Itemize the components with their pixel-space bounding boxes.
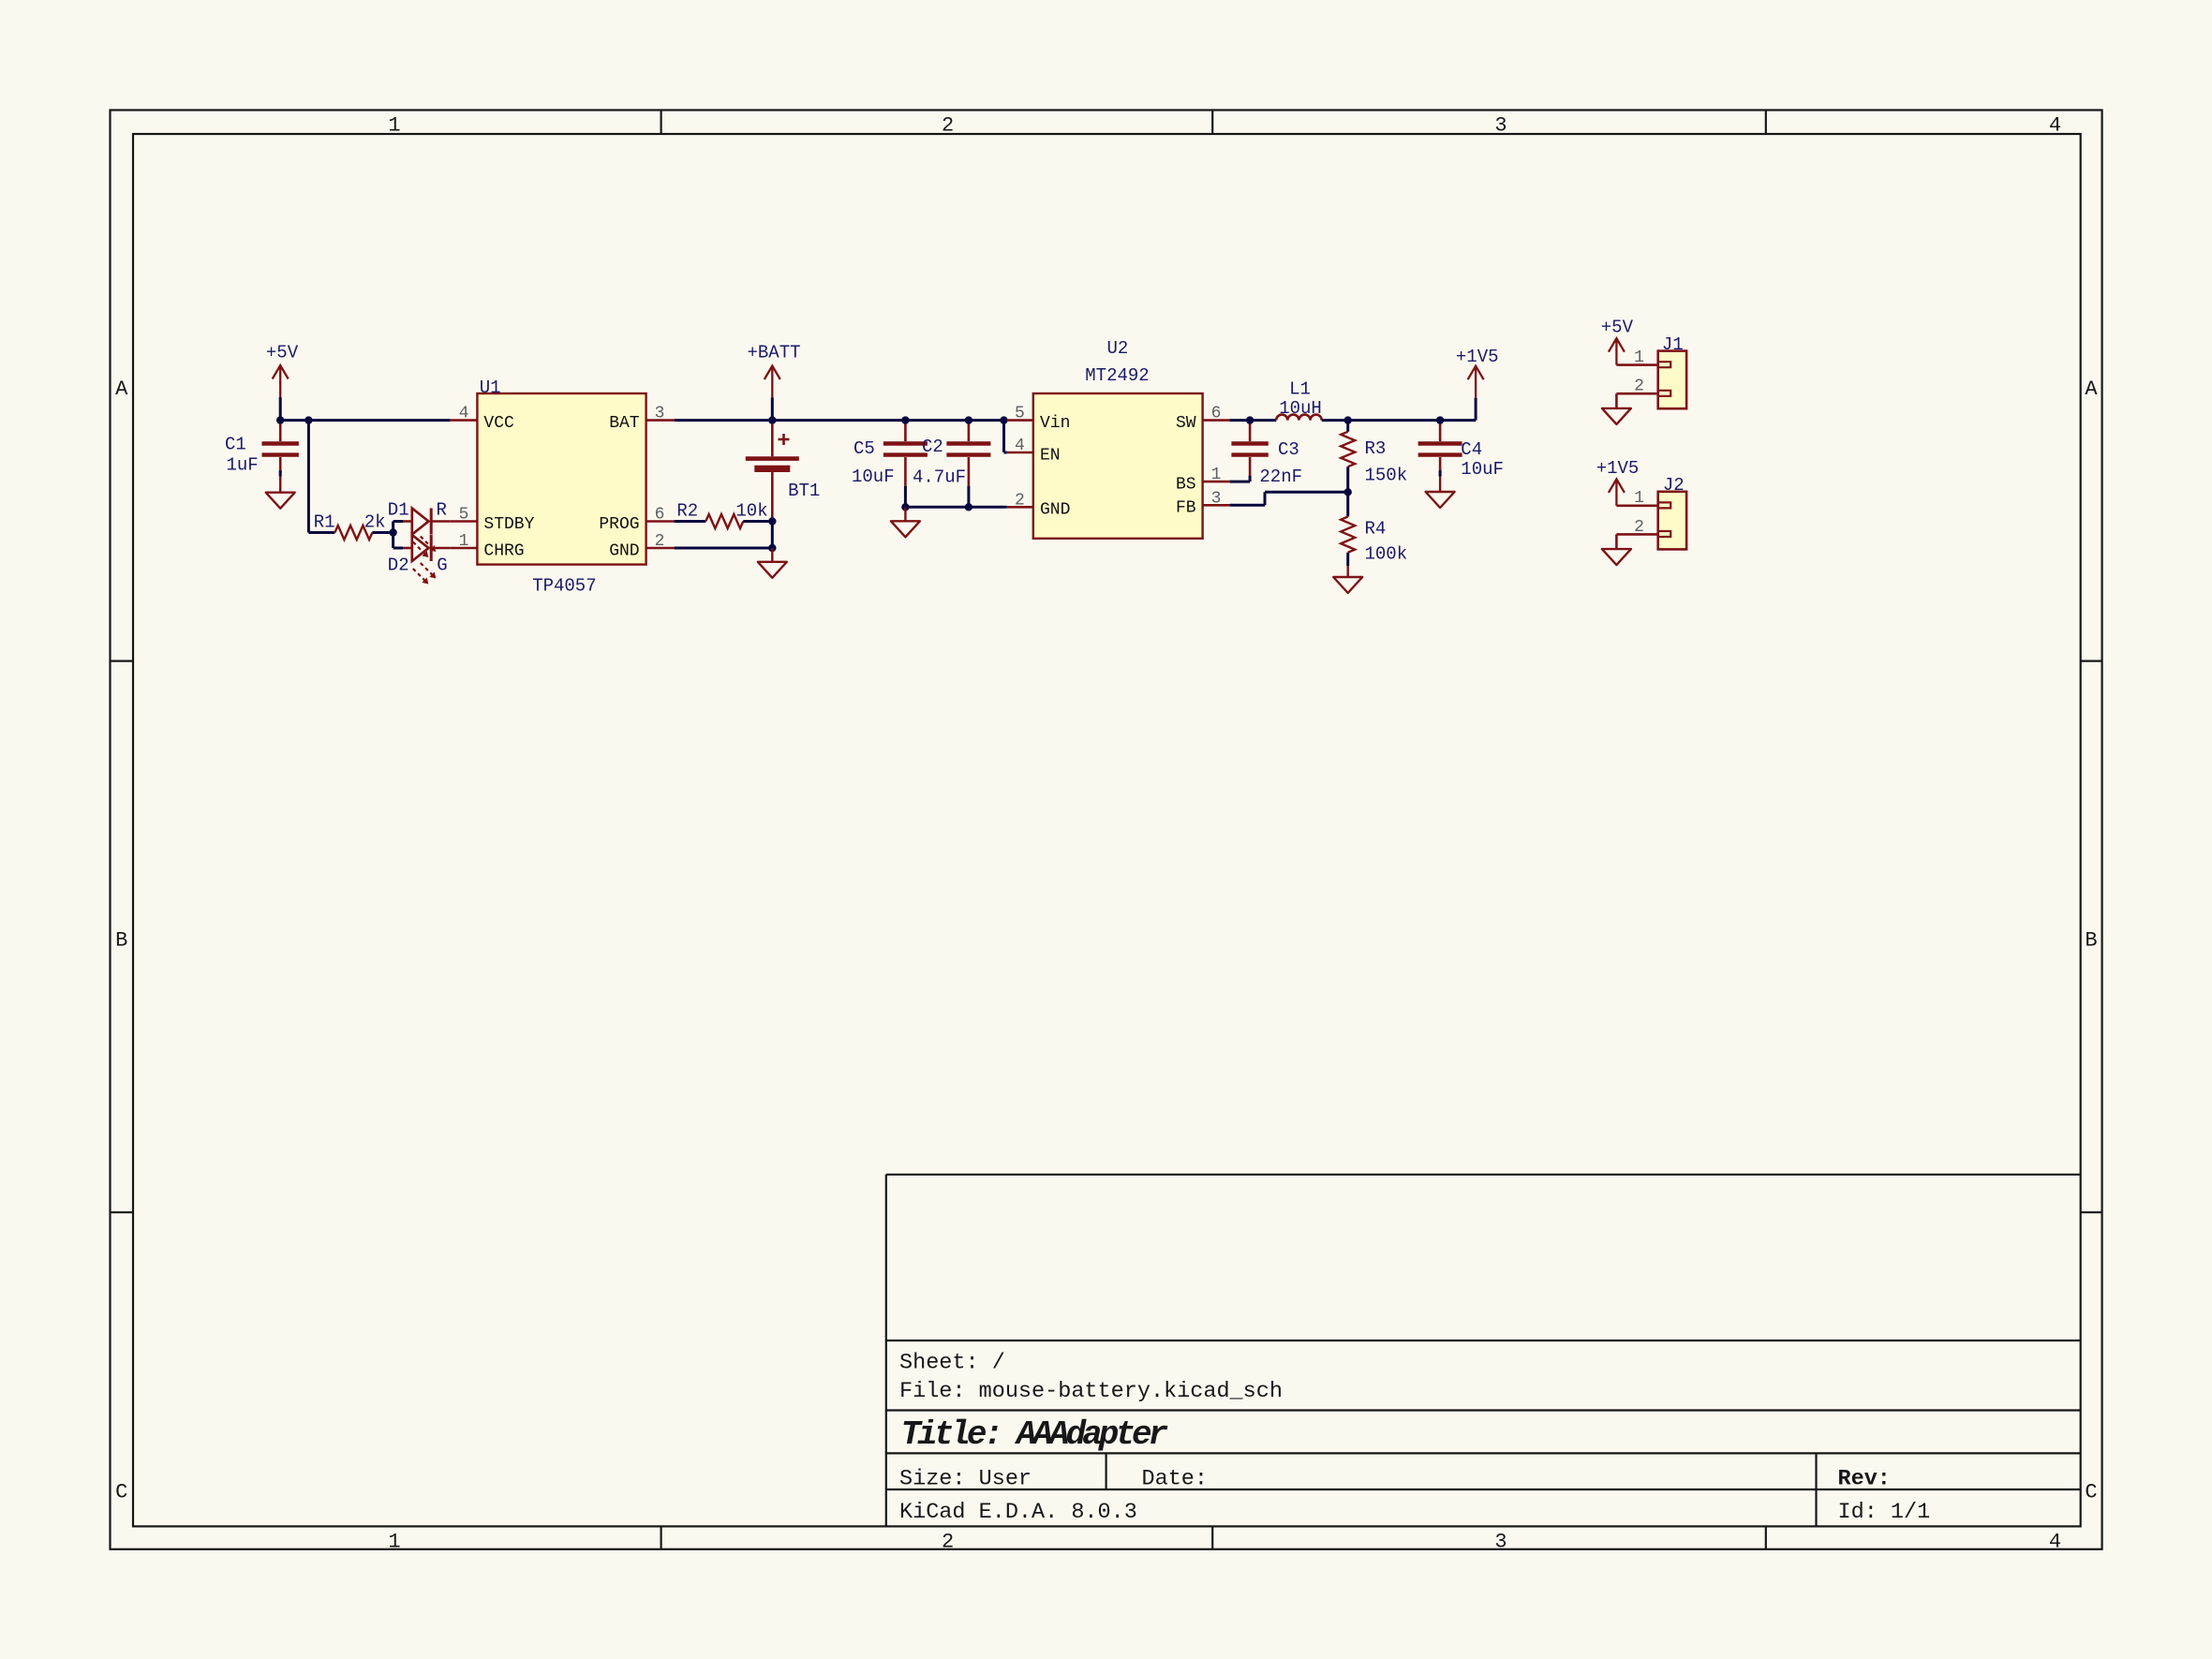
U1 reference label bbox=[480, 378, 501, 398]
svg-text:22nF: 22nF bbox=[1259, 467, 1302, 487]
svg-text:U2: U2 bbox=[1106, 338, 1128, 359]
battery BT1 bbox=[746, 421, 799, 522]
junction R1 branch node bbox=[304, 416, 312, 423]
LED D2 green bbox=[403, 535, 450, 585]
wire battery minus column bbox=[771, 522, 774, 549]
svg-text:5: 5 bbox=[1015, 405, 1025, 423]
title block sheet id text bbox=[1838, 1500, 1931, 1525]
junction feedback node bbox=[1344, 488, 1352, 496]
wire U1 BAT to U2 Vin bbox=[675, 419, 1007, 422]
wire +BATT stem bbox=[771, 398, 774, 421]
svg-text:C2: C2 bbox=[922, 437, 943, 457]
svg-text:B: B bbox=[115, 929, 127, 953]
svg-text:C1: C1 bbox=[225, 434, 246, 454]
svg-text:Title: AAAdapter: Title: AAAdapter bbox=[901, 1415, 1168, 1454]
capacitor C2 bbox=[946, 421, 990, 508]
svg-text:3: 3 bbox=[1211, 489, 1222, 508]
connector J1 body bbox=[1658, 351, 1686, 409]
svg-text:1: 1 bbox=[388, 1531, 400, 1554]
svg-text:A: A bbox=[115, 378, 128, 401]
resistor R2 bbox=[675, 514, 773, 528]
U2 pin 2 GND bbox=[1007, 491, 1071, 519]
R2 value 10k bbox=[735, 500, 767, 521]
svg-text:+1V5: +1V5 bbox=[1596, 458, 1640, 479]
ground below C1 bbox=[266, 477, 295, 509]
svg-text:CHRG: CHRG bbox=[483, 541, 524, 560]
wire SW to L1 bbox=[1230, 419, 1277, 422]
R3 reference label bbox=[1365, 438, 1387, 459]
U1 pin 5 STDBY bbox=[450, 506, 534, 534]
title text AAAdapter bbox=[901, 1415, 1168, 1454]
svg-text:R1: R1 bbox=[314, 512, 335, 533]
R4 reference label bbox=[1365, 519, 1387, 540]
svg-text:+BATT: +BATT bbox=[747, 343, 800, 363]
svg-text:2: 2 bbox=[1015, 491, 1025, 510]
svg-text:File: mouse-battery.kicad_sch: File: mouse-battery.kicad_sch bbox=[899, 1379, 1283, 1404]
svg-text:J2: J2 bbox=[1663, 475, 1685, 496]
svg-text:Size: User: Size: User bbox=[899, 1467, 1032, 1492]
svg-text:B: B bbox=[2085, 929, 2097, 953]
wire +1V5 stem bbox=[1475, 398, 1477, 421]
svg-text:Date:: Date: bbox=[1142, 1467, 1209, 1492]
title block outline bbox=[886, 1175, 2081, 1527]
wire LED anode riser bbox=[393, 522, 403, 549]
svg-text:10uH: 10uH bbox=[1279, 398, 1322, 419]
C5 value 10uF bbox=[852, 467, 895, 487]
resistor R4 bbox=[1341, 492, 1355, 566]
svg-text:BS: BS bbox=[1176, 476, 1196, 495]
svg-text:J1: J1 bbox=[1662, 334, 1684, 355]
svg-text:1: 1 bbox=[1211, 466, 1222, 484]
ground below C5 bbox=[891, 507, 920, 537]
L1 value 10uH bbox=[1279, 398, 1322, 419]
inductor L1 bbox=[1276, 415, 1321, 421]
wire U1 GND to BT1 minus node bbox=[675, 547, 773, 550]
U2 pin 1 BS bbox=[1176, 466, 1230, 494]
D1 reference label bbox=[388, 499, 409, 520]
wire +5V to J1 pin 1 bbox=[1616, 363, 1657, 366]
svg-text:Sheet: /: Sheet: / bbox=[899, 1351, 1005, 1376]
U1 pin 1 CHRG bbox=[450, 532, 524, 560]
wire ground bus to U2 GND bbox=[905, 506, 1006, 509]
wire J2 pin 2 to ground bbox=[1616, 534, 1657, 549]
junction GND wire to battery node bbox=[768, 544, 776, 552]
R3 value 150k bbox=[1365, 466, 1408, 486]
C1 reference label bbox=[225, 434, 246, 454]
svg-text:G: G bbox=[437, 555, 447, 576]
op-amp U2 MT2492 body bbox=[1033, 393, 1203, 539]
junction C3 top bbox=[1246, 416, 1254, 423]
U2 pin 3 FB bbox=[1176, 489, 1230, 517]
title block file name text bbox=[899, 1379, 1283, 1404]
D1 value R bbox=[437, 499, 447, 520]
svg-text:STDBY: STDBY bbox=[483, 515, 534, 534]
U1 value TP4057 bbox=[532, 576, 596, 597]
C2 value 4.7uF bbox=[913, 467, 966, 487]
svg-text:EN: EN bbox=[1040, 446, 1061, 465]
LED D1 red bbox=[403, 509, 450, 558]
J1 pin number 1 bbox=[1634, 348, 1644, 367]
svg-text:KiCad E.D.A. 8.0.3: KiCad E.D.A. 8.0.3 bbox=[899, 1500, 1137, 1525]
svg-text:D1: D1 bbox=[388, 499, 409, 520]
svg-text:10k: 10k bbox=[735, 500, 767, 521]
svg-text:R: R bbox=[437, 499, 447, 520]
title block sheet path text bbox=[899, 1351, 1005, 1376]
svg-text:SW: SW bbox=[1176, 414, 1196, 433]
svg-text:100k: 100k bbox=[1365, 544, 1408, 565]
title block date field bbox=[1142, 1467, 1209, 1492]
svg-text:4.7uF: 4.7uF bbox=[913, 467, 966, 487]
svg-text:VCC: VCC bbox=[483, 414, 514, 433]
svg-text:4: 4 bbox=[2049, 1531, 2061, 1554]
row tick marks left/right bbox=[111, 661, 2102, 1213]
svg-text:BAT: BAT bbox=[609, 414, 640, 433]
wire Vin to EN bbox=[1004, 421, 1007, 452]
D2 value G bbox=[437, 555, 447, 576]
svg-text:R2: R2 bbox=[676, 500, 698, 521]
capacitor C4 bbox=[1418, 421, 1462, 477]
capacitor C1 bbox=[262, 421, 299, 477]
svg-text:A: A bbox=[2085, 378, 2098, 401]
svg-text:U1: U1 bbox=[480, 378, 501, 398]
svg-text:150k: 150k bbox=[1365, 466, 1408, 486]
svg-text:R4: R4 bbox=[1365, 519, 1387, 540]
sheet inner border frame bbox=[133, 134, 2081, 1526]
svg-text:3: 3 bbox=[1494, 1531, 1507, 1554]
svg-text:C5: C5 bbox=[854, 438, 875, 459]
L1 reference label bbox=[1289, 379, 1311, 400]
svg-text:+5V: +5V bbox=[1601, 318, 1634, 338]
junction at LED anodes bbox=[389, 528, 396, 536]
U1 pin 2 GND bbox=[609, 532, 674, 560]
D2 reference label bbox=[388, 555, 409, 576]
wire J1 pin 2 to ground bbox=[1616, 393, 1657, 408]
svg-text:GND: GND bbox=[1040, 501, 1070, 520]
resistor R3 bbox=[1341, 421, 1355, 493]
power symbol +5V at J1 bbox=[1601, 318, 1634, 365]
junction at C1 top node bbox=[276, 416, 284, 423]
frame column labels 1 2 3 4 bbox=[388, 113, 2061, 1553]
power symbol +BATT bbox=[747, 343, 800, 398]
svg-text:2k: 2k bbox=[364, 512, 386, 533]
svg-text:1: 1 bbox=[1634, 489, 1644, 508]
wire FB to divider bbox=[1230, 492, 1348, 505]
ground below R4 bbox=[1333, 566, 1362, 593]
svg-text:1: 1 bbox=[459, 532, 469, 551]
R1 reference label bbox=[314, 512, 335, 533]
junction R3 top bbox=[1344, 416, 1352, 423]
svg-text:4: 4 bbox=[2049, 113, 2061, 137]
svg-text:+5V: +5V bbox=[266, 343, 299, 363]
svg-text:6: 6 bbox=[1211, 405, 1222, 423]
junction C5 top bbox=[901, 416, 909, 423]
svg-text:3: 3 bbox=[655, 405, 665, 423]
svg-text:FB: FB bbox=[1176, 499, 1196, 518]
svg-text:Rev:: Rev: bbox=[1838, 1467, 1891, 1492]
C4 reference label bbox=[1461, 439, 1482, 460]
connector J2 body bbox=[1658, 492, 1686, 550]
sheet outer border frame bbox=[111, 111, 2102, 1549]
junction Vin EN node bbox=[1000, 416, 1007, 423]
svg-text:R3: R3 bbox=[1365, 438, 1387, 459]
C3 reference label bbox=[1278, 439, 1299, 460]
svg-text:C: C bbox=[2085, 1481, 2097, 1504]
wire +5V stem to node bbox=[279, 397, 282, 421]
svg-text:5: 5 bbox=[459, 506, 469, 525]
svg-text:TP4057: TP4057 bbox=[532, 576, 596, 597]
power symbol +1V5 at J2 bbox=[1596, 458, 1640, 506]
J2 pin number 2 bbox=[1634, 518, 1644, 537]
capacitor C3 bbox=[1230, 421, 1269, 481]
power symbol +1V5 output bbox=[1456, 347, 1499, 398]
svg-text:Vin: Vin bbox=[1040, 414, 1070, 433]
junction C4 top bbox=[1436, 416, 1444, 423]
ground at J1 bbox=[1602, 408, 1631, 424]
C5 reference label bbox=[854, 438, 875, 459]
wire +1V5 to J2 pin 1 bbox=[1616, 504, 1657, 507]
svg-text:C4: C4 bbox=[1461, 439, 1482, 460]
svg-text:10uF: 10uF bbox=[852, 467, 895, 487]
svg-text:2: 2 bbox=[942, 1531, 954, 1554]
svg-text:BT1: BT1 bbox=[788, 481, 820, 501]
U2 value MT2492 bbox=[1085, 365, 1149, 386]
R4 value 100k bbox=[1365, 544, 1408, 565]
svg-text:4: 4 bbox=[1015, 437, 1025, 455]
U2 pin 6 SW bbox=[1176, 405, 1230, 433]
svg-text:C3: C3 bbox=[1278, 439, 1299, 460]
C1 value 1uF bbox=[227, 454, 259, 475]
svg-text:PROG: PROG bbox=[599, 515, 639, 534]
junction +BATT node bbox=[768, 416, 776, 423]
U1 pin 3 BAT bbox=[609, 405, 674, 433]
title block size field bbox=[899, 1467, 1032, 1492]
U2 pin 5 Vin bbox=[1007, 405, 1071, 433]
wire +5V node to U1 VCC bbox=[280, 419, 450, 422]
U1 pin 6 PROG bbox=[599, 506, 674, 534]
svg-text:Id: 1/1: Id: 1/1 bbox=[1838, 1500, 1931, 1525]
BT1 reference label bbox=[788, 481, 820, 501]
svg-text:6: 6 bbox=[655, 506, 665, 525]
op-amp U1 TP4057 body bbox=[477, 393, 646, 565]
R1 value 2k bbox=[364, 512, 386, 533]
junction C2 top bbox=[965, 416, 972, 423]
svg-text:2: 2 bbox=[655, 532, 665, 551]
U1 pin 4 VCC bbox=[450, 405, 514, 433]
svg-text:1: 1 bbox=[1634, 348, 1644, 367]
C3 value 22nF bbox=[1259, 467, 1302, 487]
R2 reference label bbox=[676, 500, 698, 521]
svg-text:3: 3 bbox=[1494, 113, 1507, 137]
svg-text:1uF: 1uF bbox=[227, 454, 259, 475]
resistor R1 bbox=[308, 526, 393, 540]
svg-text:+1V5: +1V5 bbox=[1456, 347, 1499, 367]
C4 value 10uF bbox=[1461, 459, 1504, 480]
C2 reference label bbox=[922, 437, 943, 457]
U2 pin 4 EN bbox=[1007, 437, 1061, 465]
J1 reference label bbox=[1662, 334, 1684, 355]
column tick marks top/bottom bbox=[661, 111, 1766, 1549]
junction C2 bottom bbox=[965, 503, 972, 511]
power symbol +5V bbox=[266, 343, 299, 398]
frame row labels A B C bbox=[115, 378, 2098, 1504]
svg-text:C: C bbox=[115, 1481, 127, 1504]
ground below BT1 bbox=[758, 548, 787, 578]
J2 pin number 1 bbox=[1634, 489, 1644, 508]
svg-text:4: 4 bbox=[459, 405, 469, 423]
capacitor C5 bbox=[883, 421, 928, 508]
title block rev field bbox=[1838, 1467, 1891, 1492]
J1 pin number 2 bbox=[1634, 378, 1644, 396]
svg-text:GND: GND bbox=[609, 541, 639, 560]
ground below C4 bbox=[1426, 477, 1455, 509]
junction C5 bottom bbox=[901, 503, 909, 511]
svg-text:D2: D2 bbox=[388, 555, 409, 576]
svg-text:L1: L1 bbox=[1289, 379, 1311, 400]
wire down to R1 bbox=[307, 421, 310, 533]
wire L1 to output node bbox=[1322, 419, 1476, 422]
title block kicad version text bbox=[899, 1500, 1137, 1525]
U2 reference label bbox=[1106, 338, 1128, 359]
svg-text:1: 1 bbox=[388, 113, 400, 137]
svg-text:2: 2 bbox=[942, 113, 954, 137]
J2 reference label bbox=[1663, 475, 1685, 496]
junction R2 to battery node bbox=[768, 517, 776, 525]
svg-text:MT2492: MT2492 bbox=[1085, 365, 1149, 386]
ground at J2 bbox=[1602, 549, 1631, 565]
svg-text:10uF: 10uF bbox=[1461, 459, 1504, 480]
